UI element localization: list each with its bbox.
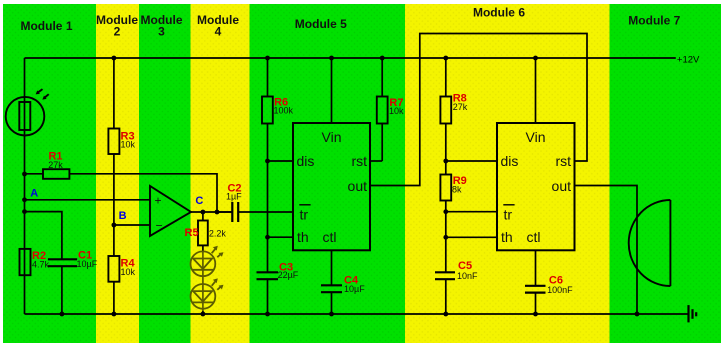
op-amp U1 <box>150 186 191 236</box>
wire IC1 Vin pin <box>331 58 333 123</box>
wire C6 bottom lead <box>535 293 537 314</box>
wire th node down to C5 <box>445 237 447 272</box>
svg-text:tr: tr <box>300 207 309 223</box>
wire IC1 rst pin to R7 <box>370 160 382 162</box>
resistor R7 10k <box>377 97 404 124</box>
wire R7 top lead <box>381 58 383 97</box>
wire tr node down to th node <box>445 212 447 238</box>
capacitor C1 10uF <box>48 250 98 315</box>
resistor R6 100k <box>262 97 294 124</box>
svg-text:4.7k: 4.7k <box>32 260 50 270</box>
wire node B horizontal <box>114 224 150 226</box>
wire R8 top lead <box>445 58 447 97</box>
wire R6 bottom to dis node <box>267 124 269 162</box>
svg-text:10k: 10k <box>121 267 136 277</box>
svg-text:Vin: Vin <box>322 129 342 145</box>
svg-text:A: A <box>30 187 38 199</box>
wire LED bottom lead <box>202 311 204 314</box>
resistor R5 2.2k <box>185 221 227 246</box>
wire R1 right lead feedback to node C <box>70 174 217 212</box>
svg-text:27k: 27k <box>48 160 63 170</box>
svg-text:rst: rst <box>351 153 367 169</box>
resistor R8 27k <box>440 93 467 124</box>
wire R9 bottom to tr node <box>445 201 447 212</box>
555 timer U3 <box>497 123 575 250</box>
wire IC1 dis pin <box>268 160 294 162</box>
svg-text:1µF: 1µF <box>226 192 242 202</box>
resistor R3 10k <box>108 129 135 155</box>
svg-text:10k: 10k <box>121 140 136 150</box>
capacitor C6 100nF <box>525 274 573 295</box>
capacitor C3 22uF <box>257 261 299 280</box>
svg-text:th: th <box>297 229 309 245</box>
svg-text:Module 7: Module 7 <box>628 14 680 28</box>
555 timer U2 <box>293 123 370 250</box>
resistor R4 10k <box>108 256 135 282</box>
wire R8 bottom to dis node <box>445 124 447 175</box>
svg-text:8k: 8k <box>452 185 462 195</box>
resistor R9 8k <box>440 175 466 201</box>
wire dis node down to th node <box>267 161 269 237</box>
svg-text:10k: 10k <box>389 106 404 116</box>
wire C2 to IC1 tr pin <box>238 211 293 213</box>
wire IC2 ctl pin to C6 <box>535 250 537 285</box>
wire th node down to C3 <box>267 237 269 272</box>
svg-text:B: B <box>119 210 127 222</box>
ground <box>689 305 697 322</box>
wire IC2 out to speaker <box>575 186 638 315</box>
wire IC2 th pin <box>446 236 497 238</box>
svg-text:Module 6: Module 6 <box>473 6 525 20</box>
svg-text:C: C <box>195 195 203 207</box>
wire node C to C2 <box>217 211 232 213</box>
capacitor C4 10uF <box>321 274 365 294</box>
resistor R1 27k horizontal <box>43 151 69 179</box>
wire C3 bottom lead <box>267 279 269 314</box>
svg-text:out: out <box>552 178 572 194</box>
wire R5 top lead <box>202 212 204 221</box>
LED D1 <box>191 249 222 284</box>
svg-text:ctl: ctl <box>323 229 337 245</box>
svg-text:+12V: +12V <box>677 55 700 66</box>
svg-text:Vin: Vin <box>526 129 546 145</box>
svg-text:dis: dis <box>501 153 519 169</box>
wire left column vertical <box>24 58 26 314</box>
wire R4 top lead <box>113 225 115 256</box>
svg-text:10nF: 10nF <box>457 271 478 281</box>
svg-text:th: th <box>501 229 513 245</box>
wire R5 bottom lead <box>202 245 204 251</box>
wire R4 bottom lead <box>113 282 115 314</box>
svg-text:+: + <box>155 194 162 208</box>
LDR photoresistor <box>6 89 49 135</box>
wire IC2 dis pin <box>446 160 497 162</box>
wire C4 bottom lead <box>331 292 333 314</box>
wire R7 bottom lead <box>381 124 383 162</box>
svg-text:ctl: ctl <box>527 229 541 245</box>
wire IC1 ctl pin to C4 <box>331 250 333 285</box>
svg-text:100nF: 100nF <box>547 285 573 295</box>
svg-text:rst: rst <box>555 153 571 169</box>
wire C1 branch from left column <box>25 212 62 260</box>
wire IC2 Vin pin <box>535 58 537 123</box>
wire bottom rail 0V <box>25 313 688 315</box>
svg-text:100k: 100k <box>274 106 294 116</box>
svg-text:10µF: 10µF <box>344 284 365 294</box>
svg-text:−: − <box>156 219 163 233</box>
LED D2 <box>191 281 222 311</box>
svg-text:out: out <box>348 178 368 194</box>
wire IC1 out to IC2 rst loop <box>370 34 587 186</box>
wire R6 top lead <box>267 58 269 97</box>
wire R3 top lead <box>113 58 115 129</box>
wire op-amp output node C <box>191 211 232 213</box>
wire R3 bottom to node B <box>113 154 115 225</box>
capacitor C5 10nF <box>435 260 478 281</box>
svg-text:2.2k: 2.2k <box>209 229 227 239</box>
svg-text:10µF: 10µF <box>77 259 98 269</box>
svg-text:27k: 27k <box>453 102 468 112</box>
svg-text:22µF: 22µF <box>278 270 299 280</box>
svg-text:R5: R5 <box>185 227 199 239</box>
wire C5 bottom lead <box>445 279 447 314</box>
speaker LS1 <box>629 200 671 286</box>
capacitor C2 1uF <box>226 182 242 222</box>
resistor R2 4.7k <box>20 249 50 275</box>
svg-text:Module 5: Module 5 <box>295 17 347 31</box>
svg-text:Module 1: Module 1 <box>20 19 72 33</box>
wire IC2 tr pin <box>446 211 497 213</box>
wire top rail +12V <box>25 57 676 59</box>
wire IC1 th pin <box>268 236 294 238</box>
svg-text:tr: tr <box>504 207 513 223</box>
wire R1 left lead <box>25 173 43 175</box>
wire node A horizontal <box>25 199 151 201</box>
svg-text:dis: dis <box>297 153 315 169</box>
